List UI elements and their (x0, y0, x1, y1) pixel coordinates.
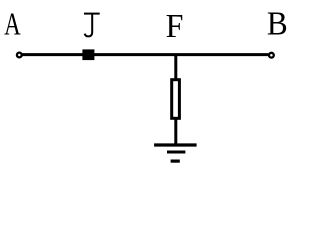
svg-text:B: B (267, 5, 288, 42)
svg-text:F: F (166, 8, 184, 45)
svg-text:A: A (4, 6, 21, 41)
